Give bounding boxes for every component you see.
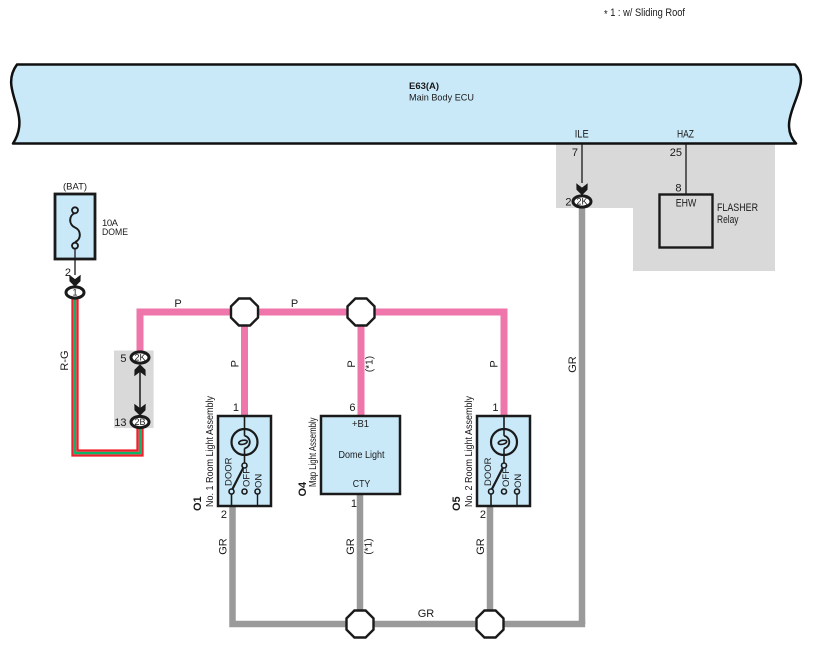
O1 contacts DOOR/OFF/ON bbox=[229, 489, 234, 494]
wire GR from 2K oval down to bottom rail bbox=[579, 206, 586, 624]
svg-text:P: P bbox=[346, 360, 358, 367]
O1 internal lead bbox=[244, 416, 246, 436]
svg-text:6: 6 bbox=[349, 402, 355, 414]
svg-text:P: P bbox=[489, 360, 501, 367]
wire R-G green center stripe bbox=[75, 298, 140, 453]
svg-text:P: P bbox=[174, 298, 181, 310]
svg-text:13: 13 bbox=[114, 417, 126, 429]
svg-text:DOOR: DOOR bbox=[483, 457, 494, 486]
svg-text:2: 2 bbox=[565, 197, 571, 209]
fuse 10A DOME box bbox=[55, 194, 95, 259]
svg-text:Relay: Relay bbox=[717, 214, 739, 226]
svg-text:P: P bbox=[291, 298, 298, 310]
connector 2K (junction block) bbox=[131, 352, 149, 363]
junction J3 bbox=[347, 611, 374, 638]
svg-text:GR: GR bbox=[567, 356, 579, 373]
arrow into 2K bbox=[576, 183, 587, 195]
wire R-G red inner stripe bbox=[77, 298, 137, 451]
svg-text:R-G: R-G bbox=[59, 350, 71, 370]
svg-text:GR: GR bbox=[418, 608, 435, 620]
O5 internal lead bbox=[503, 416, 505, 436]
O4 Map Light Assembly box bbox=[321, 416, 400, 494]
wire P drop to O1 pin1 bbox=[241, 312, 248, 417]
svg-text:GR: GR bbox=[345, 538, 357, 555]
svg-text:Map Light Assembly: Map Light Assembly bbox=[308, 418, 319, 488]
svg-text:O1: O1 bbox=[192, 496, 204, 511]
svg-text:1: 1 bbox=[351, 498, 357, 510]
svg-text:2K: 2K bbox=[576, 197, 587, 207]
O5 No.2 Room Light Assembly box bbox=[477, 416, 530, 506]
wire GR from O5 pin2 bbox=[487, 506, 494, 624]
svg-text:CTY: CTY bbox=[353, 478, 371, 490]
svg-text:GR: GR bbox=[475, 538, 487, 555]
connector 2B bbox=[131, 416, 149, 427]
pin 7 lead from ILE bbox=[581, 144, 583, 183]
svg-text:FLASHER: FLASHER bbox=[717, 202, 758, 214]
connector block shade 2K/2B bbox=[114, 351, 154, 429]
svg-text:+B1: +B1 bbox=[352, 418, 369, 430]
svg-text:7: 7 bbox=[572, 147, 578, 159]
svg-text:P: P bbox=[230, 360, 242, 367]
svg-text:25: 25 bbox=[670, 147, 682, 159]
svg-text:No. 2 Room Light Assembly: No. 2 Room Light Assembly bbox=[464, 396, 475, 507]
ECU band E63(A) bbox=[11, 65, 801, 144]
svg-text:(*1): (*1) bbox=[365, 356, 376, 372]
connector 1 bbox=[66, 287, 84, 298]
svg-text:* 1 : w/ Sliding Roof: * 1 : w/ Sliding Roof bbox=[604, 7, 686, 21]
wire R-G from fuse to 2B: red outer stripe bbox=[73, 298, 143, 455]
svg-text:O5: O5 bbox=[451, 496, 463, 511]
junction J1 bbox=[231, 299, 258, 326]
pin 25 lead from HAZ bbox=[685, 144, 687, 194]
O1 bulb bbox=[232, 429, 258, 455]
svg-text:DOOR: DOOR bbox=[224, 457, 235, 486]
svg-text:5: 5 bbox=[120, 353, 126, 365]
svg-text:E63(A): E63(A) bbox=[409, 81, 439, 92]
svg-text:HAZ: HAZ bbox=[677, 129, 694, 141]
svg-text:(*1): (*1) bbox=[364, 538, 375, 554]
svg-text:Main Body ECU: Main Body ECU bbox=[409, 93, 474, 104]
relay EHW box bbox=[660, 195, 713, 248]
O5 switch pivot bbox=[502, 463, 507, 468]
O5 contacts DOOR/OFF/ON bbox=[489, 489, 494, 494]
double arrow link bbox=[139, 367, 141, 413]
pin 2 lead from fuse bbox=[74, 249, 76, 276]
wire GR from O4 pin1 bbox=[357, 493, 364, 624]
fuse element bbox=[70, 213, 80, 242]
wire P: pink harness from 2K up and across to O5 bbox=[140, 312, 504, 417]
svg-text:2: 2 bbox=[221, 509, 227, 521]
O1 switch blade to DOOR bbox=[231, 468, 244, 493]
svg-text:Dome Light: Dome Light bbox=[339, 449, 385, 461]
shield: gray zone under ECU (ILE/HAZ area) bbox=[556, 144, 775, 271]
svg-text:1: 1 bbox=[492, 402, 498, 414]
svg-text:1: 1 bbox=[72, 288, 77, 298]
svg-text:GR: GR bbox=[218, 538, 230, 555]
svg-text:(BAT): (BAT) bbox=[63, 182, 87, 193]
svg-text:EHW: EHW bbox=[676, 198, 697, 210]
svg-text:1: 1 bbox=[233, 402, 239, 414]
svg-text:2: 2 bbox=[480, 509, 486, 521]
svg-text:2B: 2B bbox=[134, 417, 145, 427]
wire P drop to O4 pin6 bbox=[358, 312, 365, 417]
svg-text:DOME: DOME bbox=[102, 227, 128, 238]
arrow into connector 1 bbox=[69, 275, 80, 287]
wire GR from O1 pin2 down and along bottom rail bbox=[233, 505, 586, 624]
svg-text:2K: 2K bbox=[134, 353, 145, 363]
O5 bulb bbox=[491, 429, 517, 455]
O5 switch blade to DOOR bbox=[490, 468, 503, 493]
svg-text:8: 8 bbox=[675, 183, 681, 195]
svg-text:No. 1 Room Light Assembly: No. 1 Room Light Assembly bbox=[205, 396, 216, 507]
svg-text:ILE: ILE bbox=[575, 129, 589, 141]
O1 switch pivot bbox=[242, 463, 247, 468]
svg-text:ON: ON bbox=[513, 474, 524, 488]
junction J4 bbox=[477, 611, 504, 638]
O1 No.1 Room Light Assembly box bbox=[218, 416, 271, 506]
svg-text:ON: ON bbox=[254, 474, 265, 488]
junction J2 bbox=[348, 299, 375, 326]
svg-text:OFF: OFF bbox=[501, 468, 512, 487]
svg-text:OFF: OFF bbox=[242, 468, 253, 487]
connector 2K (to harness) bbox=[573, 196, 591, 207]
